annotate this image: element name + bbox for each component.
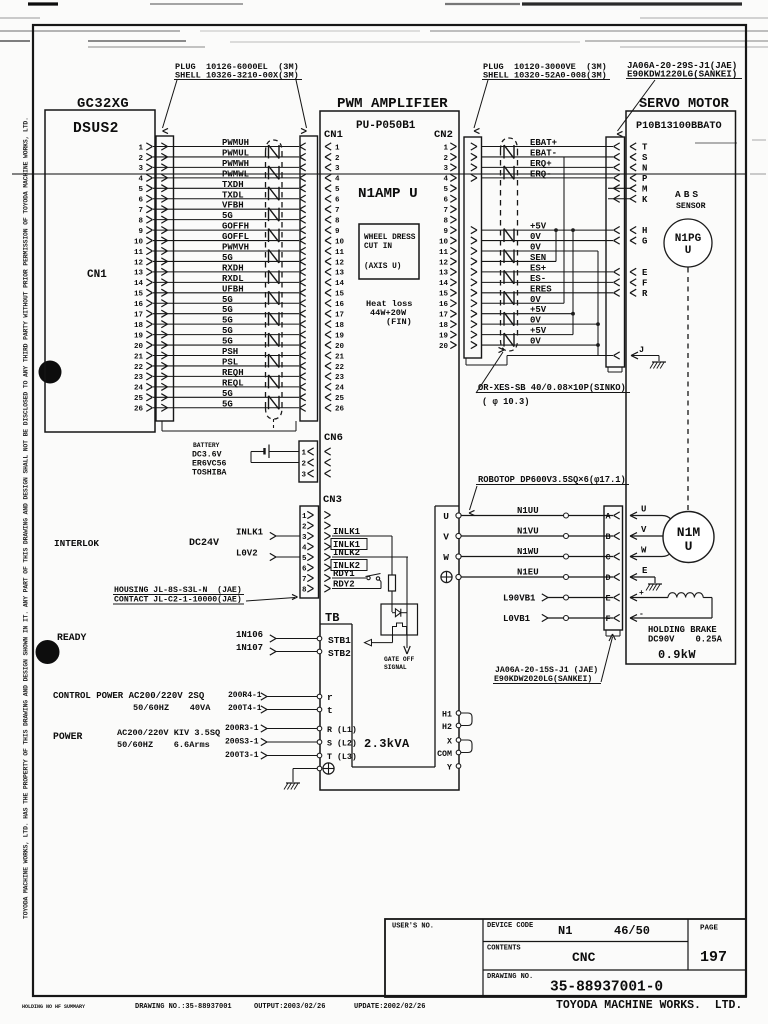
svg-text:RDY1: RDY1 [333, 569, 355, 579]
thyristor Q1 [392, 612, 395, 614]
svg-text:1N107: 1N107 [236, 643, 263, 653]
svg-text:0.9kW: 0.9kW [658, 648, 696, 662]
svg-text:5: 5 [138, 186, 143, 194]
svg-text:3: 3 [335, 165, 340, 173]
svg-text:SEN: SEN [530, 253, 546, 263]
svg-text:19: 19 [335, 332, 345, 340]
svg-text:46/50: 46/50 [614, 924, 650, 938]
wire CN2 pin 13 (ES+) [481, 271, 613, 273]
svg-text:0V: 0V [530, 337, 541, 347]
svg-text:RXDL: RXDL [222, 274, 244, 284]
svg-text:U: U [685, 245, 692, 257]
svg-text:5G: 5G [222, 399, 233, 409]
cable shield dashed outline left [266, 140, 283, 152]
holding brake coil L1 [630, 594, 637, 597]
svg-text:9: 9 [138, 228, 143, 236]
wire stub CN2 row 5 [608, 187, 630, 189]
svg-text:50/60HZ 40VA: 50/60HZ 40VA [133, 703, 211, 713]
svg-text:Y: Y [447, 764, 452, 773]
svg-text:HOLDING NO HF SUMMARY: HOLDING NO HF SUMMARY [22, 1004, 85, 1010]
annotation arrow to motor encoder plug [618, 80, 656, 131]
TB partition line [320, 623, 352, 625]
svg-text:13: 13 [134, 270, 144, 278]
motor power connector foot [605, 630, 607, 636]
svg-text:15: 15 [335, 291, 345, 299]
svg-text:3: 3 [302, 534, 307, 542]
svg-text:3: 3 [302, 472, 307, 480]
svg-text:RXDH: RXDH [222, 263, 244, 273]
wire INLK2 to gate-off [406, 557, 408, 648]
svg-text:UPDATE:2002/02/26: UPDATE:2002/02/26 [354, 1003, 425, 1011]
wire CN1 pin 14 (RXDL) [153, 281, 299, 283]
svg-text:200S3-1: 200S3-1 [225, 738, 259, 747]
svg-text:W: W [443, 552, 449, 563]
svg-text:F: F [642, 278, 647, 288]
svg-text:STB2: STB2 [328, 648, 351, 659]
svg-text:N1VU: N1VU [517, 527, 539, 537]
svg-text:r: r [327, 692, 333, 703]
wire CN2 pin 12 (SEN) [481, 260, 556, 262]
svg-text:V: V [443, 532, 449, 543]
svg-text:CN3: CN3 [323, 494, 342, 506]
svg-text:W: W [641, 546, 647, 556]
svg-text:CONTROL POWER AC200/220V 2SQ: CONTROL POWER AC200/220V 2SQ [53, 691, 205, 701]
module bump symbol [393, 623, 407, 635]
wire CN1 pin 9 (GOFFH) [153, 229, 299, 231]
motor power connector strip A-F [604, 506, 623, 630]
terminal Y [456, 764, 461, 769]
motor N1M U circle [663, 512, 714, 563]
svg-text:19: 19 [439, 332, 449, 340]
wire CN2 pin 9 (+5V) [481, 229, 613, 231]
amplifier output terminal earth [441, 571, 452, 582]
wire N1VU [461, 535, 613, 537]
svg-text:200T4-1: 200T4-1 [228, 704, 262, 713]
svg-text:UFBH: UFBH [222, 284, 244, 294]
svg-text:U: U [443, 511, 449, 522]
svg-text:SENSOR: SENSOR [676, 202, 706, 211]
svg-text:CN1: CN1 [87, 269, 107, 281]
encoder N1PG U [664, 219, 712, 267]
battery B1 symbol [268, 445, 270, 459]
svg-text:TB: TB [325, 611, 339, 625]
signal INLK1 pin4 boxed [331, 539, 367, 550]
wire CN2 pin 19 (+5V) [481, 334, 573, 336]
svg-text:14: 14 [134, 280, 144, 288]
wire battery- to CN6 pin2 [251, 451, 265, 453]
jumper H1-H2 [461, 713, 472, 726]
svg-text:ROBOTOP DP600V3.5SQ×6(φ17.1): ROBOTOP DP600V3.5SQ×6(φ17.1) [478, 475, 626, 485]
signal RDY2 pin8 [332, 588, 381, 590]
svg-text:PWMWH: PWMWH [222, 159, 249, 169]
motor side contact letters T-K [630, 143, 636, 147]
cable plug strip (CN2 mating 10120-3000VE) [464, 137, 482, 358]
annotation arrow to CN3 [246, 598, 295, 602]
svg-text:(AXIS U): (AXIS U) [364, 263, 401, 271]
svg-text:S (L2): S (L2) [327, 739, 357, 749]
svg-text:REQL: REQL [222, 378, 244, 388]
svg-text:( φ 10.3): ( φ 10.3) [482, 397, 530, 407]
jumper X-COM [461, 740, 472, 753]
svg-text:13: 13 [335, 270, 345, 278]
annotation arrow to right strip [296, 80, 307, 128]
svg-text:24: 24 [134, 385, 144, 393]
svg-text:OUTPUT:2003/02/26: OUTPUT:2003/02/26 [254, 1003, 325, 1011]
ground symbol motor frame [648, 583, 662, 585]
svg-text:5G: 5G [222, 389, 233, 399]
svg-text:CONTACT JL-C2-1-10000(JAE): CONTACT JL-C2-1-10000(JAE) [114, 595, 242, 605]
wire CN1 pin 21 (PSH) [153, 355, 299, 357]
svg-text:1: 1 [443, 144, 448, 152]
wire CN1 pin 12 (5G) [153, 260, 299, 262]
svg-text:C: C [606, 553, 611, 563]
svg-text:5G: 5G [222, 337, 233, 347]
svg-text:T (L3): T (L3) [327, 752, 357, 762]
svg-text:15: 15 [134, 291, 144, 299]
shield tie vertical EBAT- to 0V [563, 157, 565, 303]
wire CN1 pin 19 (5G) [153, 334, 299, 336]
svg-text:PWMUH: PWMUH [222, 138, 249, 148]
svg-text:5G: 5G [222, 211, 233, 221]
svg-text:15: 15 [439, 291, 449, 299]
svg-text:6: 6 [302, 566, 307, 574]
terminal H1 [456, 711, 461, 716]
svg-text:CONTENTS: CONTENTS [487, 945, 521, 953]
svg-text:CN2: CN2 [434, 129, 453, 141]
svg-text:E90KDW1220LG(SANKEI): E90KDW1220LG(SANKEI) [627, 69, 737, 80]
svg-text:35-88937001-0: 35-88937001-0 [550, 980, 663, 996]
svg-text:23: 23 [134, 374, 144, 382]
svg-text:WHEEL DRESS: WHEEL DRESS [364, 234, 416, 242]
svg-text:H1: H1 [442, 711, 452, 720]
svg-text:+: + [639, 589, 644, 598]
svg-text:1: 1 [138, 144, 143, 152]
svg-text:5G: 5G [222, 295, 233, 305]
svg-text:N1: N1 [558, 924, 572, 938]
svg-text:R (L1): R (L1) [327, 725, 357, 735]
svg-text:CN6: CN6 [324, 432, 343, 444]
svg-text:H2: H2 [442, 723, 452, 732]
wire CN2 pin 4 (ERQ-) [481, 177, 613, 179]
svg-text:TOYODA MACHINE WORKS, LTD. HAS: TOYODA MACHINE WORKS, LTD. HAS THE PROPE… [23, 117, 30, 919]
twisted pair crossover symbols left cable [268, 145, 270, 158]
svg-text:8: 8 [335, 217, 340, 225]
wire CN1 pin 8 (5G) [153, 219, 299, 221]
PWM amplifier box U1 [320, 111, 459, 790]
svg-text:SERVO MOTOR: SERVO MOTOR [639, 97, 730, 112]
svg-text:DC3.6V: DC3.6V [192, 451, 222, 460]
earth terminal of amplifier [317, 766, 322, 771]
svg-text:6: 6 [335, 197, 340, 205]
svg-text:200R4-1: 200R4-1 [228, 691, 262, 700]
wire stub CN2 row 6 [608, 198, 630, 200]
svg-text:PSL: PSL [222, 357, 238, 367]
motor side contact letters H G [630, 227, 636, 231]
svg-text:N1AMP U: N1AMP U [358, 186, 418, 202]
svg-text:7: 7 [335, 207, 340, 215]
svg-text:14: 14 [335, 280, 345, 288]
connector CN3 plug strip [300, 506, 319, 598]
svg-text:TOYODA MACHINE WORKS. LTD.: TOYODA MACHINE WORKS. LTD. [556, 999, 742, 1012]
svg-text:N1UU: N1UU [517, 506, 539, 516]
svg-text:PAGE: PAGE [700, 925, 719, 933]
svg-text:PWMWL: PWMWL [222, 169, 249, 179]
terminal COM [456, 750, 461, 755]
svg-text:3: 3 [443, 165, 448, 173]
svg-text:AC200/220V KIV 3.5SQ: AC200/220V KIV 3.5SQ [117, 728, 220, 738]
svg-text:ERES: ERES [530, 284, 552, 294]
CN2 plug shield foot [465, 358, 467, 365]
wire N1UU [461, 515, 613, 517]
svg-text:8: 8 [138, 217, 143, 225]
cable plug strip left (10126-6000EL) [156, 136, 174, 421]
svg-text:11: 11 [439, 249, 449, 257]
svg-text:17: 17 [439, 312, 448, 320]
svg-text:ES+: ES+ [530, 263, 546, 273]
svg-text:21: 21 [335, 353, 345, 361]
wire CN1 pin 25 (5G) [153, 396, 299, 398]
svg-text:0V: 0V [530, 243, 541, 253]
svg-text:ES-: ES- [530, 274, 546, 284]
wire CN2 pin 2 (EBAT-) [481, 156, 613, 158]
svg-text:1: 1 [335, 144, 340, 152]
svg-text:2: 2 [138, 155, 143, 163]
svg-text:22: 22 [134, 364, 144, 372]
svg-text:N1M: N1M [677, 525, 701, 540]
svg-text:200R3-1: 200R3-1 [225, 724, 259, 733]
svg-text:P: P [642, 174, 648, 184]
svg-text:DC24V: DC24V [189, 538, 219, 549]
svg-text:X: X [447, 738, 452, 747]
svg-text:2: 2 [302, 524, 307, 532]
svg-text:J: J [639, 345, 644, 355]
shield tie vertical +5V chain [572, 230, 574, 335]
svg-text:CNC: CNC [572, 950, 596, 965]
svg-text:N1EU: N1EU [517, 568, 539, 578]
svg-text:SHELL 10326-3210-00X(3M): SHELL 10326-3210-00X(3M) [175, 71, 299, 81]
svg-text:STB1: STB1 [328, 635, 351, 646]
wire N1WU [461, 556, 613, 558]
svg-text:4: 4 [138, 176, 143, 184]
amplifier CN1 pins 1-26 [325, 143, 331, 147]
svg-text:+5V: +5V [530, 326, 547, 336]
svg-text:OR-XES-SB 40/0.08×10P(SINKO): OR-XES-SB 40/0.08×10P(SINKO) [478, 383, 626, 393]
svg-text:B: B [606, 532, 611, 542]
shield wire J [507, 355, 613, 357]
svg-text:5: 5 [335, 186, 340, 194]
svg-text:5: 5 [443, 186, 448, 194]
svg-text:t: t [327, 705, 333, 716]
svg-text:0V: 0V [530, 316, 541, 326]
svg-text:6: 6 [138, 197, 143, 205]
annotation arrow to A-F connector [601, 637, 613, 682]
svg-text:18: 18 [134, 322, 144, 330]
svg-text:16: 16 [439, 301, 449, 309]
annotation arrow ROBOTOP [470, 486, 478, 510]
svg-text:ABS: ABS [675, 189, 701, 200]
svg-text:D: D [606, 573, 611, 583]
svg-text:26: 26 [335, 406, 345, 414]
wire CN1 pin 11 (PWMVH) [153, 250, 299, 252]
svg-text:REQH: REQH [222, 368, 244, 378]
wire CN1 pin 15 (UFBH) [153, 292, 299, 294]
wire CN2 pin 16 (0V) [481, 302, 564, 304]
svg-text:VFBH: VFBH [222, 201, 244, 211]
gate-off output arrow down [404, 646, 407, 654]
wire CN1 pin 16 (5G) [153, 302, 299, 304]
wire CN1 pin 2 (PWMUL) [153, 156, 299, 158]
svg-text:2.3kVA: 2.3kVA [364, 737, 410, 751]
cable plug strip right (CN1 mating) [300, 136, 318, 421]
servo motor box [626, 111, 736, 664]
svg-text:+5V: +5V [530, 305, 547, 315]
svg-text:EBAT+: EBAT+ [530, 138, 557, 148]
svg-text:18: 18 [439, 322, 449, 330]
svg-text:20: 20 [439, 343, 449, 351]
svg-text:+5V: +5V [530, 222, 547, 232]
ground for shield J [652, 361, 666, 363]
signal INLK2 pin5 [332, 556, 408, 558]
title block dividers [482, 919, 484, 997]
svg-text:14: 14 [439, 280, 449, 288]
svg-text:24: 24 [335, 385, 345, 393]
shield tie vertical 0V chain to J [597, 251, 599, 356]
wire CN1 pin 18 (5G) [153, 323, 299, 325]
wire battery+ to CN6 pin1 [269, 451, 299, 453]
svg-text:20: 20 [335, 343, 345, 351]
relay contact K1 [367, 576, 370, 579]
svg-text:E: E [642, 268, 648, 278]
svg-text:11: 11 [134, 249, 144, 257]
power section partition [352, 766, 435, 768]
svg-text:2: 2 [443, 155, 448, 163]
wire N1EU [461, 576, 613, 578]
signal INLK2 pin6 boxed [331, 560, 367, 571]
wire motor W to winding [630, 549, 674, 557]
svg-text:TXDL: TXDL [222, 190, 244, 200]
wire CN1 pin 3 (PWMWH) [153, 166, 299, 168]
svg-text:M: M [642, 184, 647, 194]
svg-text:10: 10 [134, 238, 144, 246]
svg-text:HOLDING BRAKE: HOLDING BRAKE [648, 625, 717, 635]
svg-text:L0V2: L0V2 [236, 549, 258, 559]
svg-text:GOFFL: GOFFL [222, 232, 249, 242]
wire CN1 pin 1 (PWMUH) [153, 146, 299, 148]
wheel dress option box [359, 224, 419, 279]
svg-text:4: 4 [443, 176, 448, 184]
svg-text:25: 25 [134, 395, 144, 403]
svg-text:INTERLOK: INTERLOK [54, 538, 99, 549]
wire CN1 pin 23 (REQH) [153, 375, 299, 377]
svg-text:7: 7 [138, 207, 143, 215]
wire CN2 pin 18 (0V) [481, 323, 598, 325]
wire CN1 pin 10 (GOFFL) [153, 240, 299, 242]
controller box DSUS2 [45, 110, 155, 432]
svg-text:ERQ-: ERQ- [530, 169, 552, 179]
svg-text:2: 2 [335, 155, 340, 163]
svg-text:INLK2: INLK2 [333, 548, 360, 558]
svg-text:DSUS2: DSUS2 [73, 121, 119, 137]
shield drain bus below strips [161, 421, 163, 431]
resistor R1 [391, 536, 393, 575]
svg-text:JA06A-20-15S-J1 (JAE): JA06A-20-15S-J1 (JAE) [495, 665, 598, 675]
wire CN2 pin 20 (0V) [481, 344, 598, 346]
wire CN1 pin 17 (5G) [153, 313, 299, 315]
svg-text:13: 13 [439, 270, 449, 278]
svg-text:SIGNAL: SIGNAL [384, 664, 407, 671]
svg-text:L0VB1: L0VB1 [503, 614, 531, 624]
motor shaft dashed link [687, 268, 689, 512]
gate-off output arrow left [392, 635, 394, 643]
svg-text:GATE OFF: GATE OFF [384, 656, 414, 663]
wire CN1 pin 20 (5G) [153, 344, 299, 346]
svg-text:R: R [642, 289, 648, 299]
terminal X [456, 738, 461, 743]
annotation arrow to left strip [163, 80, 178, 128]
svg-text:T: T [642, 143, 648, 153]
signal INLK1 pin3 [332, 535, 392, 537]
wire motor V to winding [630, 535, 664, 537]
svg-text:10: 10 [439, 238, 449, 246]
wire brake return [630, 615, 637, 618]
svg-text:S: S [642, 153, 648, 163]
svg-text:3: 3 [138, 165, 143, 173]
svg-text:9: 9 [443, 228, 448, 236]
svg-text:197: 197 [700, 949, 727, 966]
terminal H2 [456, 723, 461, 728]
svg-text:A: A [606, 512, 612, 522]
svg-text:E90KDW2020LG(SANKEI): E90KDW2020LG(SANKEI) [494, 674, 592, 684]
wire CN2 pin 3 (ERQ+) [481, 166, 613, 168]
svg-text:50/60HZ 6.6Arms: 50/60HZ 6.6Arms [117, 740, 210, 750]
motor encoder plug foot [607, 367, 609, 372]
svg-text:INLK1: INLK1 [236, 528, 264, 538]
svg-text:4: 4 [335, 176, 340, 184]
svg-text:RDY2: RDY2 [333, 580, 355, 590]
signal RDY1 pin7 [332, 577, 366, 579]
svg-text:5G: 5G [222, 316, 233, 326]
svg-text:DRAWING NO.:35-88937001: DRAWING NO.:35-88937001 [135, 1003, 232, 1011]
shield tie vertical +5V to SEN [555, 230, 557, 261]
motor encoder plug strip [606, 137, 625, 367]
svg-text:PWMUL: PWMUL [222, 148, 249, 158]
svg-text:12: 12 [134, 259, 144, 267]
twisted pair crossover symbols right cable [503, 145, 505, 158]
gate-off thyristor box [381, 604, 418, 635]
svg-text:9: 9 [335, 228, 340, 236]
svg-text:COM: COM [437, 750, 452, 759]
svg-text:INLK1: INLK1 [333, 527, 361, 537]
svg-text:7: 7 [302, 576, 307, 584]
svg-text:CUT IN: CUT IN [364, 243, 392, 251]
motor winding terminals U V W [630, 512, 637, 515]
svg-text:V: V [641, 525, 647, 535]
svg-text:EBAT-: EBAT- [530, 148, 557, 158]
wire CN2 pin 1 (EBAT+) [481, 146, 613, 148]
svg-text:BATTERY: BATTERY [193, 442, 220, 449]
svg-text:H: H [642, 226, 647, 236]
motor side contact letters E F R [630, 268, 636, 272]
svg-text:E: E [606, 594, 611, 604]
svg-text:TOSHIBA: TOSHIBA [192, 469, 226, 478]
svg-text:7: 7 [443, 207, 448, 215]
svg-text:SHELL 10320-52A0-008(3M): SHELL 10320-52A0-008(3M) [483, 71, 607, 81]
svg-text:17: 17 [134, 312, 143, 320]
svg-text:6: 6 [443, 197, 448, 205]
svg-text:0V: 0V [530, 232, 541, 242]
svg-text:1: 1 [302, 450, 307, 458]
svg-text:N1WU: N1WU [517, 547, 539, 557]
